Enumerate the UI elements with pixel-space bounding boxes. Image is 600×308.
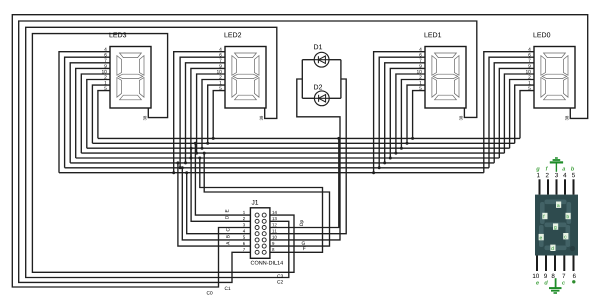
wire LED2 pin 10 to bus bbox=[197, 74, 225, 153]
pinout picture dp mark bbox=[572, 280, 575, 283]
pin numbers LED0 bbox=[526, 48, 531, 90]
junction net F bus bbox=[198, 157, 201, 160]
7-segment display LED3 digit bbox=[117, 53, 144, 100]
wire LED3 pin 9 to bus bbox=[76, 68, 110, 158]
7-segment display LED3 body bbox=[110, 47, 151, 109]
label net E bbox=[225, 210, 228, 213]
label net F bbox=[303, 247, 305, 250]
junction net B bus bbox=[181, 166, 184, 169]
wire net G J1 pin9 wrap to bus bbox=[204, 153, 329, 246]
junction LED2 pin 7 bus bbox=[184, 161, 187, 164]
junction LED1 pin 6 bus bbox=[378, 166, 381, 169]
wire LED0 pin 5 to bus bbox=[520, 91, 534, 139]
wire D1 left lead bbox=[302, 59, 314, 61]
wire LED3 pin 6 to bus bbox=[65, 57, 110, 168]
junction LED1 pin 10 bus bbox=[394, 152, 397, 155]
label net D bbox=[225, 216, 228, 219]
wire LED0 pin 2 to bus bbox=[510, 80, 534, 149]
wire D2 right lead bbox=[329, 97, 341, 99]
label net C bbox=[226, 228, 229, 231]
wire LED0 pin 4 to bus bbox=[484, 52, 534, 173]
label D2 bbox=[314, 85, 322, 90]
pin numbers LED1 bbox=[417, 48, 422, 90]
junction net A bus bbox=[176, 161, 179, 164]
wire net D J1 pin to bus bbox=[191, 148, 250, 221]
junction net C bus bbox=[185, 171, 188, 174]
7-segment display LED1 digit bbox=[432, 53, 459, 100]
wire net E J1 pin to bus bbox=[195, 143, 250, 215]
wire LED0 pin 7 to bus bbox=[494, 63, 534, 163]
wire segment bus line 3 bbox=[87, 147, 510, 149]
pin numbers J1 left bbox=[243, 211, 245, 251]
pinout picture dp dot bbox=[570, 246, 575, 251]
junction LED2 pin 2 bus bbox=[201, 147, 204, 150]
wire segment bus line 1 bbox=[98, 137, 520, 139]
pinout picture top common mark bbox=[555, 162, 557, 171]
LED D2 bbox=[314, 91, 329, 106]
junction LED2 pin 5 bus bbox=[212, 137, 215, 140]
wire LED3 pin 7 to bus bbox=[70, 63, 110, 163]
7-segment display LED1 body bbox=[425, 47, 466, 109]
label CONN-DIL14 bbox=[251, 261, 283, 265]
wire LED2 pin 5 to bus bbox=[213, 91, 225, 139]
junction LED2 pin 1 bus bbox=[206, 142, 209, 145]
connector J1 pin circles bbox=[255, 213, 266, 254]
junction LED1 pin 2 bus bbox=[400, 147, 403, 150]
pin 3,8 label LED1 bbox=[459, 116, 462, 120]
pinout picture top pins bbox=[540, 179, 574, 194]
wire segment bus line 6 bbox=[70, 162, 494, 164]
wire LED2 pin 6 to bus bbox=[180, 57, 225, 168]
pinout picture bottom pins bbox=[537, 256, 574, 272]
junction LED1 pin 5 bus bbox=[411, 137, 414, 140]
wire LED3 pin 4 to bus bbox=[59, 52, 110, 173]
wire LED2 pin 1 to bus bbox=[208, 85, 225, 143]
wire LED3 pin 1 to bus bbox=[92, 85, 110, 143]
label net C2 bbox=[277, 280, 283, 283]
wire D pair left vertical bbox=[301, 60, 303, 99]
wire LED1 pin 6 to bus bbox=[379, 57, 425, 168]
wire LED0 pin 10 to bus bbox=[504, 74, 534, 153]
wire net C2 LED2 common loop bbox=[26, 27, 289, 277]
label net C3 bbox=[277, 274, 283, 277]
wire LED3 pin 10 to bus bbox=[81, 74, 110, 153]
7-segment display LED2 digit bbox=[232, 53, 259, 100]
wire net A J1 pin to bus bbox=[178, 163, 251, 246]
junction LED1 pin 1 bus bbox=[406, 142, 409, 145]
wire segment bus line 2 bbox=[92, 142, 514, 144]
wire LED1 pin 10 to bus bbox=[396, 74, 425, 153]
wire LED3 pin 2 to bus bbox=[87, 80, 110, 149]
wire D pair right tap to J1 pin11 bbox=[270, 79, 346, 234]
junction LED2 pin 10 bus bbox=[195, 152, 198, 155]
junction LED1 pin 4 bus bbox=[372, 171, 375, 174]
wire net B J1 pin to bus bbox=[182, 168, 250, 240]
label net C1 bbox=[225, 287, 231, 290]
ground symbol pinout common bbox=[549, 278, 562, 293]
wire D pair left tap to J1 pin10 bbox=[270, 79, 340, 240]
7-segment display LED0 digit bbox=[541, 53, 568, 100]
label LED3 bbox=[110, 32, 127, 37]
label net B bbox=[226, 235, 229, 238]
label net Dp bbox=[300, 220, 304, 226]
wire LED1 pin 7 to bus bbox=[385, 63, 425, 163]
7-segment display LED2 body bbox=[225, 47, 266, 109]
junction net E bus bbox=[194, 142, 197, 145]
label D1 bbox=[314, 44, 322, 49]
LED D1 bbox=[314, 52, 329, 67]
7-segment pinout picture body bbox=[535, 195, 578, 256]
label LED0 bbox=[534, 32, 551, 37]
junction LED1 pin 9 bus bbox=[389, 157, 392, 160]
wire LED1 pin 1 to bus bbox=[407, 85, 425, 143]
junction LED2 pin 9 bus bbox=[189, 157, 192, 160]
label net C0 bbox=[207, 291, 213, 294]
wire net C1 LED1 common loop bbox=[19, 21, 477, 282]
wire LED1 pin 5 to bus bbox=[413, 91, 425, 139]
pinout picture top pin numbers bbox=[537, 173, 575, 177]
pin numbers J1 right bbox=[272, 211, 277, 251]
wire LED2 pin 4 to bus bbox=[174, 52, 225, 173]
wire LED2 pin 7 to bus bbox=[186, 63, 226, 163]
junction net D bus bbox=[190, 147, 193, 150]
pinout picture top segment letters bbox=[536, 166, 574, 171]
wire segment bus line 8 bbox=[59, 172, 484, 174]
wire LED1 pin 4 to bus bbox=[374, 52, 425, 173]
label net A bbox=[226, 242, 229, 245]
wire net F J1 pin8 wrap to bus bbox=[200, 158, 323, 252]
pin numbers LED3 bbox=[102, 48, 107, 90]
wire net C J1 pin to bus bbox=[187, 173, 251, 234]
junction net Dp bus bbox=[337, 137, 340, 140]
connector J1 body bbox=[250, 208, 270, 258]
wire net Dp J1 pin12 to bus bbox=[270, 138, 339, 227]
pinout picture bottom segment letters bbox=[536, 280, 565, 284]
pin 3,8 label LED2 bbox=[260, 116, 263, 120]
wire D1 right lead bbox=[329, 59, 341, 61]
wire segment bus line 5 bbox=[76, 157, 500, 159]
label LED1 bbox=[425, 32, 442, 37]
wire LED0 pin 6 to bus bbox=[489, 57, 534, 168]
pinout picture segment letter chips bbox=[539, 202, 571, 252]
pin 3,8 label LED3 bbox=[143, 116, 146, 120]
wire LED3 pin 5 to bus bbox=[98, 91, 110, 139]
label LED2 bbox=[225, 32, 242, 37]
7-segment display LED0 body bbox=[534, 47, 575, 109]
pin numbers LED2 bbox=[217, 48, 222, 90]
junction LED2 pin 4 bus bbox=[172, 171, 175, 174]
label net G bbox=[302, 241, 305, 244]
pinout picture segments bbox=[539, 200, 571, 251]
wire LED0 pin 9 to bus bbox=[499, 68, 534, 158]
pinout picture bottom pin numbers bbox=[533, 274, 576, 278]
junction LED2 pin 6 bus bbox=[179, 166, 182, 169]
wire LED0 pin 1 to bus bbox=[515, 85, 534, 143]
wire D2 left lead bbox=[302, 97, 314, 99]
wire LED1 pin 2 to bus bbox=[401, 80, 425, 149]
wire net C3 LED3 common loop bbox=[32, 34, 294, 273]
wire LED1 pin 9 to bus bbox=[390, 68, 425, 158]
junction net G bus bbox=[203, 152, 206, 155]
wire LED2 pin 2 to bus bbox=[202, 80, 225, 149]
pin 3,8 label LED0 bbox=[565, 116, 568, 120]
label J1 bbox=[252, 200, 259, 205]
wire D pair right vertical bbox=[340, 60, 342, 99]
wire segment bus line 7 bbox=[65, 167, 489, 169]
wire LED2 pin 9 to bus bbox=[191, 68, 225, 158]
wire segment bus line 4 bbox=[81, 152, 504, 154]
junction LED1 pin 7 bus bbox=[383, 161, 386, 164]
